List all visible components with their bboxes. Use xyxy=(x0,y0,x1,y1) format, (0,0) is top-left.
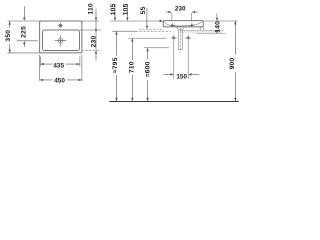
dim 140 xyxy=(216,13,218,33)
drain pipe xyxy=(178,30,182,49)
dim 435 xyxy=(40,63,80,65)
795 ref line (part dashed) xyxy=(112,30,136,32)
dim 225 xyxy=(23,6,25,47)
55 ref line xyxy=(139,28,164,30)
svg-text:105: 105 xyxy=(122,3,129,15)
svg-text:350: 350 xyxy=(5,30,12,42)
rim ext line arrow xyxy=(160,20,163,22)
svg-text:140: 140 xyxy=(215,21,222,33)
fix cross left xyxy=(171,35,177,41)
230 ext verticals xyxy=(172,13,192,21)
svg-text:≈795: ≈795 xyxy=(112,57,119,73)
svg-text:230: 230 xyxy=(175,6,186,13)
drain xyxy=(55,35,66,46)
basin bar xyxy=(163,21,203,27)
ext ticks 435 xyxy=(40,57,80,67)
floor xyxy=(109,101,239,103)
dim 350 line xyxy=(9,21,11,53)
long ext line (rim level) xyxy=(110,20,163,22)
svg-text:55: 55 xyxy=(140,6,147,14)
dim 150 xyxy=(163,73,199,75)
ext line top-left xyxy=(7,20,39,22)
dim 710 xyxy=(131,38,133,101)
svg-text:110: 110 xyxy=(87,3,94,14)
bar right end details xyxy=(200,27,203,31)
rim cross left xyxy=(169,23,175,27)
rim cross right xyxy=(189,23,195,27)
dim 55 xyxy=(146,8,148,29)
dim 110 / 230 shared line xyxy=(95,9,97,61)
hatch bottom / 140 ext line xyxy=(196,33,226,35)
svg-text:225: 225 xyxy=(20,26,27,38)
inner rect (bowl) xyxy=(42,30,79,51)
dim 105 #1 xyxy=(114,4,116,21)
svg-text:435: 435 xyxy=(53,62,64,69)
svg-text:450: 450 xyxy=(54,78,65,85)
dim 600 xyxy=(146,48,148,102)
ext lines right of rect xyxy=(82,20,99,22)
ext ticks 450 xyxy=(40,55,82,81)
dim 795 xyxy=(115,31,117,101)
svg-text:≈600: ≈600 xyxy=(145,61,152,77)
drain flange under bar xyxy=(176,27,184,30)
bowl curve inside bar xyxy=(164,22,202,26)
dim 900 xyxy=(234,21,236,101)
hatch top line xyxy=(180,29,224,31)
svg-text:230: 230 xyxy=(90,36,97,48)
svg-text:900: 900 xyxy=(229,58,236,70)
710 ref line xyxy=(129,37,167,39)
225 bottom ref line (drain axis) xyxy=(17,40,38,42)
svg-text:710: 710 xyxy=(128,61,135,73)
svg-text:105: 105 xyxy=(110,3,117,15)
ext line bottom-left xyxy=(7,52,39,54)
600 ref line xyxy=(144,47,169,49)
dim 450 xyxy=(40,79,82,81)
pipe centerline dashed xyxy=(179,28,181,53)
outer rect xyxy=(40,21,82,53)
dim 230 top xyxy=(166,11,198,13)
dim 105 #2 xyxy=(126,4,128,21)
hatch diagonals xyxy=(181,31,223,34)
faucet hole xyxy=(58,23,64,29)
ext rim level right xyxy=(203,20,237,22)
fix cross right xyxy=(185,35,191,41)
150 ext verticals xyxy=(174,41,188,79)
dashed ext inner-bottom xyxy=(82,49,102,51)
svg-text:150: 150 xyxy=(176,74,187,81)
